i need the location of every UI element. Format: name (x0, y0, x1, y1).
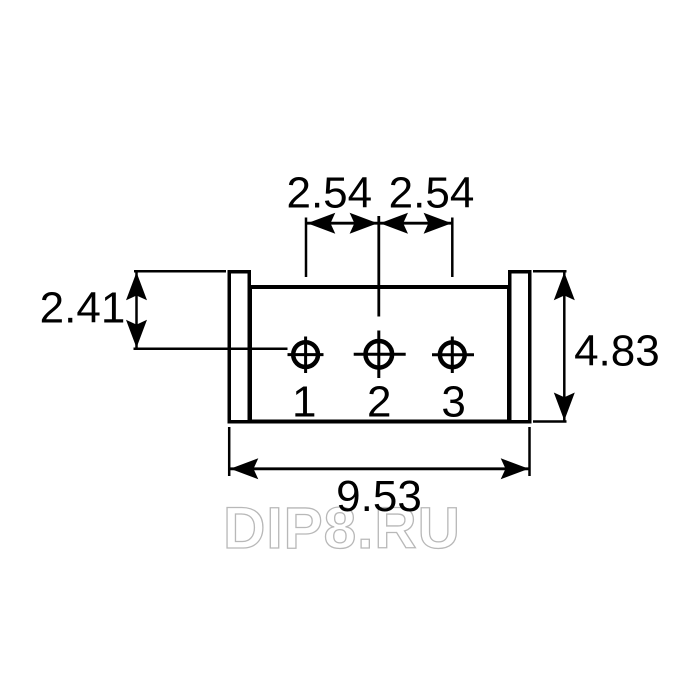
extension line 4.83 bottom (533, 420, 567, 423)
extension line pin 3 (top) (451, 218, 454, 278)
arrowhead right span right (424, 213, 452, 234)
dimension line 9.53 (230, 467, 529, 470)
arrowhead 4.83 down (554, 393, 575, 421)
left end cap (229, 272, 249, 422)
body outline (250, 287, 509, 422)
dimension line 2.54 pitch (307, 222, 452, 225)
arrowhead 2.41 down (126, 320, 147, 348)
arrowhead 4.83 up (554, 272, 575, 300)
svg-text:4.83: 4.83 (574, 327, 660, 376)
pin 1 (288, 337, 324, 374)
right end cap (510, 272, 530, 422)
svg-text:2.41: 2.41 (40, 284, 126, 333)
svg-text:2.54: 2.54 (286, 169, 372, 218)
arrowhead left span left (307, 213, 335, 234)
extension line pin 2 (top, through body to pin) (377, 216, 380, 317)
arrowhead 9.53 left (230, 458, 258, 479)
dimension line 4.83 (563, 272, 566, 421)
svg-text:3: 3 (441, 378, 465, 427)
svg-text:2: 2 (367, 378, 391, 427)
extension line 4.83 top (533, 270, 567, 273)
pin 3 (432, 337, 474, 374)
extension line 9.53 right (528, 427, 531, 476)
dimension line 2.41 (135, 272, 138, 348)
extension line pin 1 (top) (305, 218, 308, 278)
svg-text:2.54: 2.54 (389, 169, 475, 218)
svg-text:1: 1 (292, 378, 316, 427)
arrowhead 2.41 up (126, 272, 147, 300)
arrowhead left span right (350, 213, 378, 234)
extension line 2.41 bottom (to pin 1) (134, 347, 288, 350)
svg-text:9.53: 9.53 (336, 472, 422, 521)
extension line 9.53 left (228, 427, 231, 476)
arrowhead right span left (380, 213, 408, 234)
extension line 2.41 top (134, 270, 226, 273)
pin 2 (354, 331, 406, 379)
arrowhead 9.53 right (501, 458, 529, 479)
